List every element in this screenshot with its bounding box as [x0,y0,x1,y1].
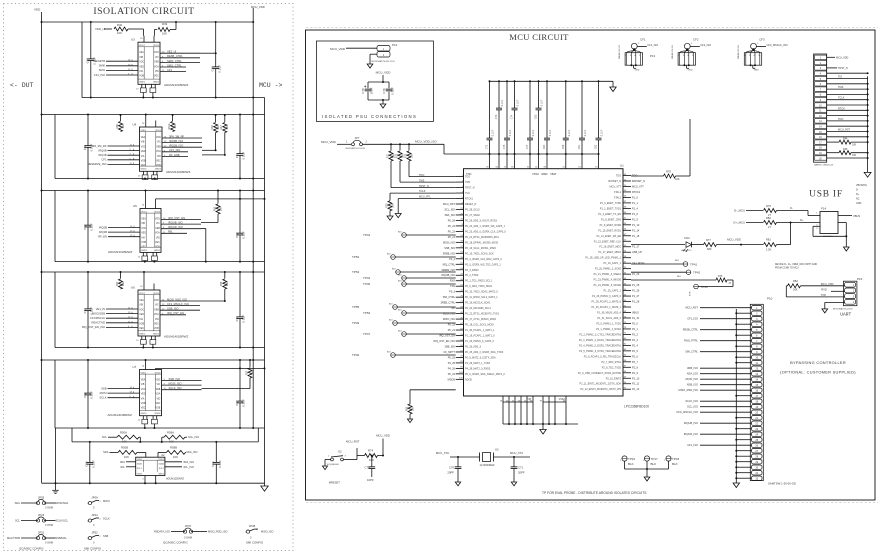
capacitor C72 [489,81,491,138]
svg-text:P1_15_ENET_REF_CLK: P1_15_ENET_REF_CLK [594,240,622,243]
svg-text:P0_9_MAT2_3_I2STX_SDA: P0_9_MAT2_3_I2STX_SDA [465,356,496,359]
svg-text:2: 2 [100,501,102,503]
wire JTAG MCU_VDD [827,56,835,58]
svg-text:IRQ0B: IRQ0B [98,148,106,152]
ground S2 [324,460,326,467]
svg-text:CT4: CT4 [365,466,371,470]
svg-text:5: 5 [692,55,693,57]
svg-text:R45: R45 [843,148,848,151]
svg-text:P0_19_MCICLK_SDA1: P0_19_MCICLK_SDA1 [465,302,491,305]
resistor R53 [217,191,219,204]
svg-text:GND: GND [754,69,759,71]
wire MCU ground bus [502,402,504,424]
svg-text:VOD: VOD [155,380,160,382]
svg-text:P0_5_I2SRX_WS_TD2_CAP2_1: P0_5_I2SRX_WS_TD2_CAP2_1 [465,263,501,266]
svg-text:VIB: VIB [139,57,143,59]
svg-text:IRQ0B_ISO: IRQ0B_ISO [169,139,183,143]
wire band3 right loop [201,222,218,224]
svg-text:P13: P13 [650,54,656,58]
svg-text:P0_21: P0_21 [448,236,456,239]
svg-text:10K: 10K [122,124,125,129]
wire band2 right connections [202,149,216,151]
svg-text:3: 3 [345,456,347,458]
svg-text:1: 1 [691,43,693,45]
svg-text:3REB_ISO: 3REB_ISO [443,252,455,255]
svg-text:20PF: 20PF [447,471,454,475]
svg-text:3DA: 3DA [120,460,125,464]
svg-text:TMS: TMS [419,179,425,182]
wire JTAG even pins to rail [827,72,868,74]
svg-text:U3: U3 [131,38,135,42]
svg-text:4: 4 [687,55,688,57]
svg-text:1: 1 [816,212,818,214]
svg-text:0.1UF: 0.1UF [501,99,504,106]
wire band 3 left edge [54,191,56,262]
svg-text:16: 16 [142,366,145,368]
svg-text:GND: GND [688,69,693,71]
svg-text:IRQUB_ISO: IRQUB_ISO [441,274,455,277]
svg-text:MCU_VDD: MCU_VDD [376,434,390,438]
svg-text:SMI CONFIG: SMI CONFIG [84,547,102,551]
svg-text:SAMTSW-1-30-06-GD: SAMTSW-1-30-06-GD [768,482,796,486]
svg-text:JP38: JP38 [249,524,256,528]
svg-text:VEC: VEC [156,161,161,163]
svg-text:VOB: VOB [141,242,146,244]
wire band 5 top rail [42,359,265,361]
svg-text:P1_19_PCAP1_1_MAT1_0: P1_19_PCAP1_1_MAT1_0 [465,335,495,338]
svg-text:BLK: BLK [389,304,393,306]
svg-text:P2_3: P2_3 [632,339,638,342]
svg-text:3CL_ISO: 3CL_ISO [183,465,194,469]
wire MCU_VDD to P12 [346,47,377,49]
svg-text:JP37: JP37 [185,524,192,528]
svg-text:P0_24_AD0_1_I2SRX_WS_CAP3_1: P0_24_AD0_1_I2SRX_WS_CAP3_1 [465,225,506,228]
svg-text:CF1_ISO: CF1_ISO [687,317,698,321]
svg-text:P2_2: P2_2 [632,333,638,336]
svg-text:P2_4: P2_4 [632,344,638,347]
svg-text:VOC: VOC [141,146,146,148]
svg-text:LPC2368FBD100: LPC2368FBD100 [624,405,649,409]
svg-text:P0_25: P0_25 [448,356,456,359]
ground R70 [389,211,391,216]
svg-text:C50: C50 [83,144,87,150]
svg-text:31: 31 [755,472,758,475]
ground MCU_RTL [395,214,401,218]
svg-text:VIC: VIC [155,305,159,307]
svg-text:SMI0_CTRL: SMI0_CTRL [167,59,182,63]
svg-text:0.1UF: 0.1UF [90,391,94,399]
svg-text:GND1: GND1 [141,413,148,415]
svg-text:VDD1: VDD1 [139,45,146,47]
svg-text:P0_26_AD0_3: P0_26_AD0_3 [465,345,482,348]
svg-text:CF1_ISO: CF1_ISO [687,443,698,447]
svg-text:BLK: BLK [387,352,391,354]
svg-text:TDO: TDO [616,175,621,178]
svg-text:TP16: TP16 [628,457,636,461]
capacitor C53 [239,191,241,234]
svg-text:P1_15: P1_15 [632,235,640,238]
svg-text:VED: VED [141,394,146,396]
svg-text:0.1UF: 0.1UF [532,129,535,136]
svg-text:P1_26: P1_26 [632,290,640,293]
svg-text:0.1UF: 0.1UF [601,129,604,136]
svg-text:GND2: GND2 [154,413,161,415]
svg-text:R53: R53 [213,206,216,211]
resistor R72 [399,143,401,145]
testpoint TP55 [393,305,398,310]
svg-text:MCU_XTA: MCU_XTA [436,451,449,455]
svg-text:VEC: VEC [139,328,144,330]
svg-text:P0_6_I2SRX_SDA_SSEL1_MAT2_0: P0_6_I2SRX_SDA_SSEL1_MAT2_0 [465,373,505,376]
svg-text:1: 1 [756,307,758,310]
svg-text:10K: 10K [117,31,122,35]
ground uart [822,309,828,313]
svg-text:SSB/MAL: SSB/MAL [56,536,68,540]
svg-text:14: 14 [755,378,758,381]
svg-text:MCU_VTT: MCU_VTT [609,185,621,188]
capacitor C81 [581,81,583,138]
svg-text:P1_14_ENET_RX_ER: P1_14_ENET_RX_ER [597,235,622,238]
svg-text:R46: R46 [211,125,214,130]
resistor R78 [631,175,664,177]
svg-text:27: 27 [768,225,771,229]
svg-text:SDA: SDA [103,450,109,454]
svg-text:RSDATA_ISO: RSDATA_ISO [154,530,170,534]
svg-text:VOD: VOD [156,137,161,139]
svg-text:SCL_ISO: SCL_ISO [188,435,199,439]
svg-text:P0_15: P0_15 [448,373,456,376]
svg-text:P1_23_PWM1_4_MISO0: P1_23_PWM1_4_MISO0 [594,279,622,282]
svg-text:R55: R55 [220,281,223,286]
svg-text:C70: C70 [449,466,455,470]
wire U7 right signals [162,380,202,382]
resistor R70 [389,193,391,200]
svg-text:C58: C58 [85,461,89,467]
svg-text:BLK: BLK [398,281,402,283]
svg-text:R76: R76 [718,275,723,278]
svg-text:13: 13 [755,373,758,376]
svg-text:SCL_ISO: SCL_ISO [444,208,455,211]
wire U3 bottom pins [141,84,143,88]
capacitor C71 [513,457,515,467]
svg-text:10UF: 10UF [370,87,374,94]
capacitor C49 [215,22,217,67]
svg-text:18: 18 [500,400,503,402]
svg-text:8: 8 [756,345,758,348]
svg-text:16: 16 [142,205,145,207]
svg-text:RF_ENB: RF_ENB [169,153,180,157]
svg-text:10K: 10K [391,203,394,208]
svg-text:VDD_UI: VDD_UI [95,27,105,31]
resistor R73 [408,143,410,145]
svg-text:TDO: TDO [465,176,470,179]
svg-text:8: 8 [147,259,149,261]
wire band 1 top rail [42,21,254,23]
svg-text:VED: VED [141,233,146,235]
wire band 6 bottom rail [42,482,265,484]
svg-text:P2_3_PWM1_4_DCD1_TRACEDATA2: P2_3_PWM1_4_DCD1_TRACEDATA2 [579,339,622,342]
svg-text:10K: 10K [122,440,127,444]
svg-text:R82: R82 [793,279,798,283]
svg-text:R80: R80 [766,216,771,220]
testpoint TP54 [396,270,401,275]
svg-text:2: 2 [383,54,385,57]
svg-text:TP52: TP52 [352,255,360,259]
wire U6 top pins [143,272,145,290]
capacitor C78 [365,88,372,90]
svg-text:VIA: VIA [141,155,145,158]
svg-text:VED: VED [139,66,144,68]
svg-text:R58B: R58B [170,446,177,450]
wire R81 to D+ [790,223,792,245]
svg-text:P1_31: P1_31 [632,317,640,320]
svg-text:RNG_PTRL: RNG_PTRL [684,339,698,343]
svg-text:VEA: VEA [139,51,144,54]
svg-text:R58A: R58A [167,431,174,435]
wire band5 right connections [202,388,251,390]
svg-text:P0_28_SCL0: P0_28_SCL0 [465,208,480,211]
svg-text:JP06: JP06 [91,496,98,500]
svg-text:P1_30_PCAP1_1_MAT1_1: P1_30_PCAP1_1_MAT1_1 [465,329,495,332]
wire U5 bottom pins [142,252,144,256]
svg-text:GND2: GND2 [154,250,161,252]
svg-text:MOSI_NSS_ISO: MOSI_NSS_ISO [167,297,187,301]
svg-text:TP17: TP17 [651,457,659,461]
svg-text:TRST_N: TRST_N [465,187,475,190]
wire P12 pin2 to ground [370,53,377,55]
svg-text:15: 15 [136,340,139,342]
svg-text:10K: 10K [174,124,177,129]
svg-text:1.5K: 1.5K [766,247,772,251]
ground C70 [455,482,460,486]
svg-text:P1_10_ENET_RXD1: P1_10_ENET_RXD1 [598,229,621,232]
svg-text:27: 27 [755,450,758,453]
svg-text:JP05: JP05 [38,496,45,500]
isolator U7 ADUM1401BRWZ [140,370,162,416]
svg-text:VEC: VEC [141,165,146,167]
svg-text:BLK: BLK [387,254,391,256]
svg-text:VIB: VIB [139,305,143,307]
svg-text:TRST_N: TRST_N [838,67,848,70]
svg-text:P2_9: P2_9 [632,372,638,375]
wire U6 bottom pins [141,336,143,340]
svg-text:VBUS: VBUS [853,214,860,218]
svg-text:TP FOR EVAL PROBE - DISTRIBUTE: TP FOR EVAL PROBE - DISTRIBUTE AROUND IS… [542,491,647,495]
svg-text:VIA: VIA [139,318,143,321]
svg-text:SSB_ISO: SSB_ISO [167,307,179,311]
svg-text:P2_1_PWM1_2_RXD1: P2_1_PWM1_2_RXD1 [596,328,622,331]
svg-text:TRST_N: TRST_N [419,185,429,188]
svg-text:VIB: VIB [141,384,145,386]
svg-text:CF1_ISO: CF1_ISO [647,43,658,47]
svg-text:1: 1 [643,460,645,462]
svg-text:MCU_RTL: MCU_RTL [419,196,431,199]
svg-text:SDA2: SDA2 [159,462,165,465]
svg-text:IRQ0B: IRQ0B [99,225,107,229]
svg-text:P2_6_PCAP1_0_RI1_TRACECLK: P2_6_PCAP1_0_RI1_TRACECLK [584,355,622,358]
svg-text:P0_10_TXD2_SDA2_MAT3_0: P0_10_TXD2_SDA2_MAT3_0 [465,291,498,294]
svg-text:18: 18 [755,400,758,403]
svg-text:P2_10_EINT0: P2_10_EINT0 [606,377,622,380]
svg-text:20PF: 20PF [518,471,525,475]
svg-text:C53: C53 [235,232,239,238]
svg-text:<- DUT: <- DUT [10,82,34,89]
svg-text:1: 1 [620,460,622,462]
svg-text:MOSI: MOSI [100,391,107,395]
svg-text:D-: D- [790,206,793,210]
svg-text:UART: UART [840,311,851,317]
svg-text:0.1UF: 0.1UF [568,129,571,136]
svg-text:SSB_ISO: SSB_ISO [169,377,181,381]
svg-text:RESERVE_ISO: RESERVE_ISO [88,162,107,166]
svg-text:IRQUB_ISO: IRQUB_ISO [684,421,698,425]
svg-text:TP41: TP41 [690,263,698,267]
svg-text:P0_11_RXD2_SCL2_MAT3_1: P0_11_RXD2_SCL2_MAT3_1 [465,296,498,299]
svg-text:VOD: VOD [154,300,159,302]
wire A2 bottom pins [144,476,146,484]
isolator U3 ADUM1401BRWZ [138,42,160,84]
svg-text:VOB: VOB [141,161,146,163]
svg-text:R50B: R50B [121,446,128,450]
svg-text:C55: C55 [235,316,239,322]
svg-text:VOD: VOD [155,219,160,221]
isolator U4 ADUM1401BRWZ [140,127,163,171]
svg-text:MCU_RST: MCU_RST [838,129,851,132]
svg-text:BLK: BLK [398,331,402,333]
svg-text:(OPTIONAL: CUSTOMER SUPPLIED): (OPTIONAL: CUSTOMER SUPPLIED) [780,370,856,375]
svg-text:TCK: TCK [465,192,470,195]
svg-text:VSSA VREF VBAT: VSSA VREF VBAT [532,172,557,176]
svg-text:C74: C74 [511,114,514,119]
svg-text:10K: 10K [793,288,798,292]
svg-text:BYPASSING CONTROLLER: BYPASSING CONTROLLER [790,360,846,365]
svg-text:R44: R44 [843,138,848,141]
svg-text:S2: S2 [338,450,342,454]
svg-text:P2_1: P2_1 [632,328,638,331]
svg-text:SMI CONFIG: SMI CONFIG [246,541,264,545]
wire R78 up [689,119,691,176]
svg-text:29: 29 [755,461,758,464]
svg-text:P12: P12 [392,43,398,47]
wire P10 grounds [736,312,751,314]
svg-text:VDD2: VDD2 [153,293,160,295]
svg-text:P1_26_PWM1_6_CAP0_0: P1_26_PWM1_6_CAP0_0 [465,340,495,343]
svg-text:BLK: BLK [628,462,634,466]
wire band 5 bottom rail [55,427,265,429]
svg-text:P4_29_MAT2_1_TXD3: P4_29_MAT2_1_TXD3 [465,362,491,365]
svg-text:GND1: GND1 [137,474,144,476]
svg-text:MICROMATCH-4-5103: MICROMATCH-4-5103 [833,308,852,311]
resistor R44 [827,141,839,143]
svg-text:MOSI_ISO: MOSI_ISO [169,382,182,386]
svg-text:REACTIVE: REACTIVE [92,321,106,325]
svg-text:GND2: GND2 [153,333,160,335]
wire reset node to MCU_VDD [382,439,384,456]
svg-text:0.1UF: 0.1UF [492,129,495,136]
svg-text:MISO_ISO: MISO_ISO [261,530,274,534]
svg-text:XTAL1: XTAL1 [614,191,622,194]
svg-text:VOA: VOA [154,313,159,316]
svg-text:IRQ1B_ISO: IRQ1B_ISO [169,144,183,148]
svg-text:P2_5: P2_5 [632,350,638,353]
wire left VDD rail [41,12,43,483]
svg-text:SAMTEC-TSW-110-26: SAMTEC-TSW-110-26 [814,164,833,167]
svg-text:R71: R71 [386,153,389,158]
svg-text:TP49: TP49 [352,321,360,325]
svg-text:VOB: VOB [156,408,161,410]
svg-text:VID: VID [155,71,159,73]
svg-text:FBEAD-CM-2X2: FBEAD-CM-2X2 [737,45,740,59]
svg-text:C71: C71 [518,466,524,470]
svg-text:47: 47 [729,282,732,285]
svg-text:BATDET_N: BATDET_N [608,180,621,183]
svg-text:VID: VID [157,398,161,400]
svg-text:P1_8_ENET_CRS: P1_8_ENET_CRS [601,218,621,221]
wire U4 left signals [108,145,140,147]
svg-text:P2_2_PWM1_3_CTS1_TRACEDATA3: P2_2_PWM1_3_CTS1_TRACEDATA3 [579,333,621,336]
svg-text:4: 4 [754,55,755,57]
svg-text:RESET_N: RESET_N [465,203,476,206]
wire MCU bottom pins [502,396,504,402]
svg-text:9: 9 [756,351,758,354]
svg-text:GND1: GND1 [139,82,146,84]
svg-text:ADUM1401BRWZ: ADUM1401BRWZ [166,170,190,174]
svg-text:RF_EN: RF_EN [98,235,107,239]
svg-text:TP40: TP40 [352,353,360,357]
capacitor C57 [239,360,241,401]
svg-text:R40: R40 [117,23,123,27]
resistor R76 [631,279,716,281]
svg-text:0: 0 [93,542,95,545]
svg-text:SMI1_CTRL: SMI1_CTRL [167,63,182,67]
svg-text:P0_2_TXD0: P0_2_TXD0 [465,274,479,277]
svg-text:0.1UF: 0.1UF [242,151,246,159]
wire R72 to TMS pin [399,161,401,182]
svg-text:BATDET_N: BATDET_N [632,180,645,183]
svg-text:C72: C72 [486,144,489,149]
MCU U1 LPC2368FBD100 [464,169,624,396]
svg-text:P0_24: P0_24 [448,225,456,228]
svg-text:MOSI_ISO: MOSI_ISO [685,377,698,381]
resistor R45 [827,152,839,154]
svg-text:VDD1: VDD1 [141,130,148,132]
svg-text:P2_0_PWM1_1_TXD1: P2_0_PWM1_1_TXD1 [596,322,621,325]
svg-text:RESB_CTRL: RESB_CTRL [683,328,699,332]
svg-text:P1_0: P1_0 [632,196,638,199]
svg-text:P2_10: P2_10 [632,377,640,380]
svg-text:FBEAD-CM-2X2: FBEAD-CM-2X2 [618,45,621,59]
svg-text:RESETB: RESETB [94,59,105,63]
svg-text:6: 6 [756,334,758,337]
svg-text:VEB: VEB [155,228,160,230]
svg-text:2: 2 [366,141,368,144]
svg-text:MCU_XT2: MCU_XT2 [510,451,523,455]
box ISOLATED PSU CONNECTIONS [316,41,433,121]
svg-text:MCU_RST: MCU_RST [685,306,698,310]
wire band box right edge [264,98,266,487]
svg-text:R78: R78 [666,170,671,174]
svg-text:JP7: JP7 [355,136,360,140]
svg-text:SCL_ISO: SCL_ISO [687,405,698,409]
wire band 2 top rail [42,114,265,116]
testpoint TP16 [622,456,627,461]
svg-text:CF1_MSCLK_ISO: CF1_MSCLK_ISO [167,302,189,306]
svg-text:MOSI/SDA: MOSI/SDA [56,501,69,505]
svg-text:P0_20_MCICMD_SCL1: P0_20_MCICMD_SCL1 [465,307,492,310]
testpoint TP18 [666,456,671,461]
svg-text:4: 4 [756,323,758,326]
svg-text:P4_28_MAT2_0_RXD3: P4_28_MAT2_0_RXD3 [465,367,491,370]
